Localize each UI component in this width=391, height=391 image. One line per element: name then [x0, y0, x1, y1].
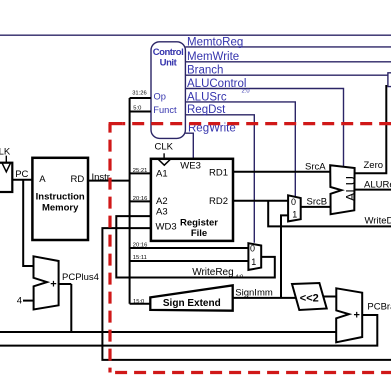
svg-text:SrcB: SrcB	[307, 197, 328, 208]
svg-text:WE3: WE3	[180, 161, 201, 172]
wire RD1 to SrcA	[233, 171, 330, 173]
svg-text:31:26: 31:26	[132, 91, 147, 97]
wire Zero	[355, 85, 387, 173]
svg-text:A1: A1	[156, 168, 168, 179]
svg-text:WriteData: WriteData	[365, 216, 391, 227]
svg-text:File: File	[191, 228, 207, 239]
svg-text:WriteReg: WriteReg	[192, 267, 234, 278]
wire ALUControl	[185, 89, 343, 167]
svg-text:RD2: RD2	[209, 196, 228, 207]
svg-text:A3: A3	[156, 207, 168, 218]
wire A2	[130, 200, 151, 202]
svg-text:15:0: 15:0	[133, 299, 144, 305]
svg-text:WD3: WD3	[156, 221, 177, 232]
wire A1	[130, 172, 151, 174]
wire SignImm riser to mux M1	[281, 215, 288, 298]
adder U-PCPlus4	[34, 256, 59, 309]
svg-text:Sign Extend: Sign Extend	[163, 298, 221, 309]
wire Result to WD3	[102, 228, 391, 360]
svg-text:Branch: Branch	[187, 65, 223, 77]
wire PCPlus4 line A	[0, 331, 336, 333]
wire 15:11 to mux	[130, 260, 249, 262]
svg-text:Control: Control	[153, 47, 184, 58]
svg-text:+: +	[50, 278, 56, 290]
wire instr riser	[129, 98, 131, 304]
svg-text:20:16: 20:16	[133, 243, 148, 249]
svg-text:Instruction: Instruction	[36, 191, 85, 202]
sign extend U-SE	[150, 285, 232, 310]
wire WriteData	[268, 201, 391, 227]
svg-text:0: 0	[291, 197, 296, 207]
clock tick PC	[5, 156, 7, 163]
memory IMEM box	[32, 158, 88, 240]
wire SignImm	[233, 297, 296, 299]
wire shift out to adder	[323, 296, 336, 298]
svg-text:SrcA: SrcA	[305, 161, 326, 172]
svg-text:PCBranch: PCBranch	[367, 302, 391, 313]
svg-text:Memory: Memory	[42, 202, 79, 213]
clock wedge PC	[2, 163, 11, 172]
svg-text:MemWrite: MemWrite	[187, 51, 239, 63]
label Register File	[180, 217, 218, 239]
register file RF box	[151, 159, 233, 241]
svg-text:ALUSrc: ALUSrc	[187, 91, 227, 103]
wire WriteReg loop to A3	[116, 216, 274, 277]
wire MemWrite	[185, 61, 391, 63]
svg-text:0: 0	[250, 243, 255, 253]
svg-text:PC: PC	[15, 169, 28, 180]
svg-text:Op: Op	[154, 92, 166, 102]
alu U-ALU	[330, 165, 354, 214]
register PC	[0, 163, 12, 192]
svg-text:Funct: Funct	[153, 105, 177, 115]
wire 4 input	[23, 300, 34, 302]
svg-text:ALUResult: ALUResult	[364, 179, 391, 190]
svg-text:A2: A2	[156, 196, 168, 207]
svg-text:CLK: CLK	[0, 146, 11, 157]
wire PCPlus4 riser	[70, 284, 72, 332]
wire RegDst	[185, 115, 254, 243]
wire top horizontal	[0, 34, 391, 36]
adder U-PCBranch	[336, 288, 362, 342]
wire PC branch down to PCPlus4 adder	[23, 180, 33, 266]
svg-text:RegDst: RegDst	[187, 104, 226, 116]
wire ALUSrc	[185, 102, 295, 197]
svg-text:MemtoReg: MemtoReg	[187, 36, 243, 48]
svg-text:20:16: 20:16	[133, 196, 148, 202]
svg-text:4: 4	[17, 295, 22, 306]
svg-text:SignImm: SignImm	[235, 288, 273, 299]
mux M-SrcB	[288, 195, 301, 221]
svg-text:1: 1	[251, 257, 256, 267]
wire 15:0 to sign extend	[130, 303, 151, 305]
svg-text:15:11: 15:11	[133, 255, 147, 261]
wire MemtoReg	[185, 46, 391, 48]
svg-text:PCPlus4: PCPlus4	[62, 272, 99, 283]
svg-text:5:0: 5:0	[133, 106, 141, 112]
wire ALUResult	[355, 189, 391, 191]
svg-text:1: 1	[292, 209, 297, 219]
svg-text:2:0: 2:0	[242, 89, 250, 95]
wire SrcB	[301, 206, 331, 208]
svg-text:Unit: Unit	[160, 58, 178, 69]
and-gate G1 (cut off at right edge)	[388, 73, 391, 87]
control unit U-CTRL outline	[151, 42, 185, 139]
svg-text:RD1: RD1	[209, 168, 228, 179]
svg-text:CLK: CLK	[155, 141, 174, 152]
svg-text:+: +	[354, 309, 360, 321]
wire PC to IMem	[12, 179, 32, 181]
svg-text:25:21: 25:21	[133, 168, 148, 174]
wire 20:16 to mux	[130, 247, 249, 249]
wire Funct	[130, 111, 151, 113]
svg-text:4:0: 4:0	[235, 275, 243, 281]
wire PCBranch	[0, 315, 377, 346]
wire RegWrite	[185, 133, 193, 159]
wire Branch	[185, 74, 388, 76]
svg-text:<<2: <<2	[300, 292, 319, 304]
svg-text:ALU: ALU	[343, 176, 358, 201]
shifter <<2	[292, 283, 327, 310]
label Control Unit	[153, 47, 184, 69]
label Instruction Memory	[36, 191, 85, 213]
wire Op	[130, 97, 151, 99]
clock wedge RF	[158, 159, 171, 165]
wire PCPlus4 out	[59, 283, 72, 285]
svg-text:Instr: Instr	[92, 172, 110, 183]
svg-text:ALUControl: ALUControl	[187, 78, 246, 90]
mux M-RegDst	[248, 243, 261, 270]
clock tick RF	[163, 153, 165, 159]
wire RD2	[233, 200, 288, 202]
svg-text:A: A	[39, 174, 46, 185]
svg-text:Register: Register	[180, 217, 218, 228]
svg-text:RD: RD	[71, 174, 85, 185]
wire Instr	[88, 180, 130, 182]
svg-text:Zero: Zero	[364, 160, 384, 171]
boundary red dashed box	[109, 124, 391, 373]
